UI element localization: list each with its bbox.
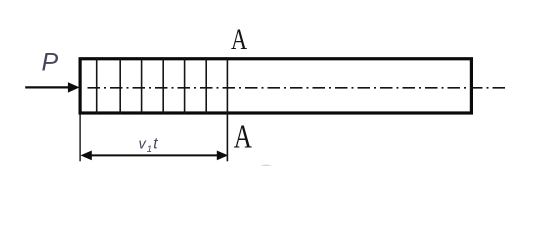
wave region vertical line 6 (205, 59, 207, 114)
wave region vertical line 3 (141, 59, 143, 114)
dimension arrowhead left (80, 151, 91, 161)
centerline (dash-dot axis) (88, 87, 509, 89)
dimension arrowhead right (217, 151, 228, 161)
force arrow head (68, 82, 80, 92)
bar outline (rod) (80, 59, 471, 113)
force arrow shaft (25, 86, 70, 88)
section line A-A (wave front), also right dimension extension (226, 59, 228, 162)
wave region vertical line 4 (162, 59, 164, 114)
wave region vertical line 1 (96, 59, 98, 114)
svg-text:A: A (234, 118, 253, 156)
svg-text:P: P (42, 48, 59, 76)
svg-text:A: A (231, 23, 247, 56)
wave region vertical line 5 (184, 59, 186, 114)
dimension line shaft (90, 154, 219, 156)
left dimension extension line (79, 114, 81, 161)
faint cropped smudge at bottom (259, 165, 273, 173)
wave region vertical line 2 (119, 59, 121, 114)
